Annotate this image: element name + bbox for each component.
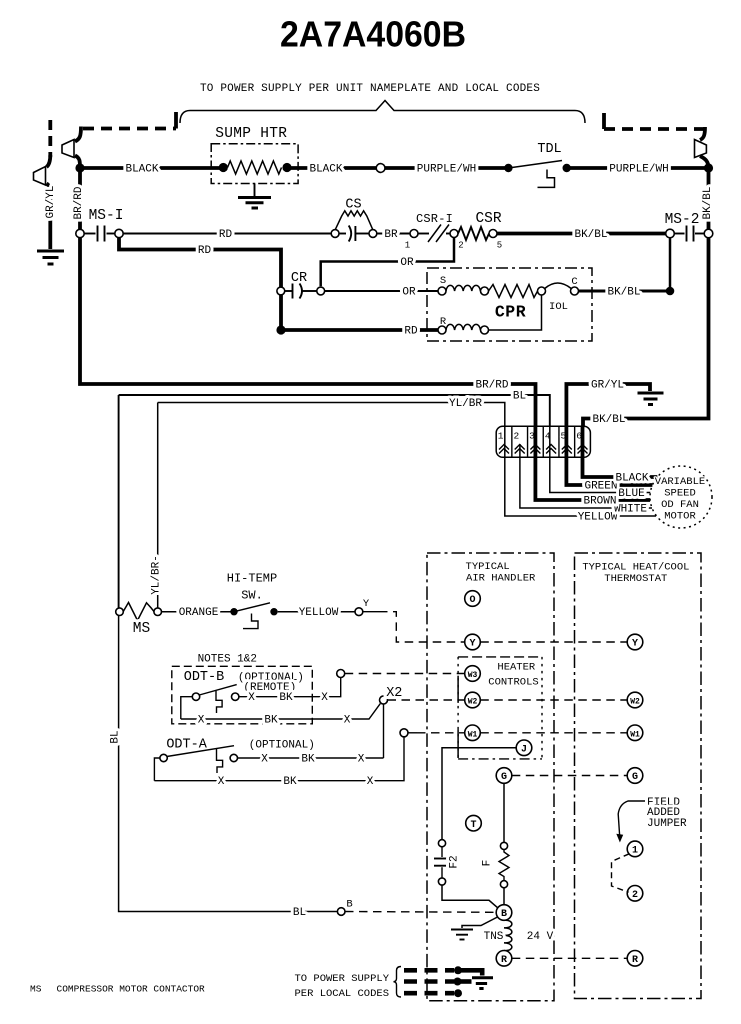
node: CPR start winding inner — [481, 287, 489, 295]
wire: F to B terminal — [503, 888, 505, 905]
svg-text:CPR: CPR — [495, 303, 526, 322]
svg-text:G: G — [632, 772, 638, 783]
capacitor CR: leads — [285, 290, 317, 292]
fuse F2: plates — [434, 859, 450, 866]
junction: RD node at CR branch — [276, 325, 285, 334]
connector: left quick-connect terminal — [62, 140, 74, 158]
svg-text:BK/BL: BK/BL — [592, 414, 625, 426]
connector: right quick-connect terminal — [695, 140, 707, 158]
fuse F2: top node — [438, 840, 445, 847]
wire: Y dashed route to air handler — [379, 612, 465, 642]
wire: OR run CR to CPR S — [325, 290, 438, 292]
wire: X2 vertical to ODT-A upper — [383, 704, 385, 758]
svg-text:GR/YL: GR/YL — [591, 380, 624, 392]
wire: BR/RD vertical from L1 to MS-1 — [78, 168, 82, 230]
terminal air handler Y — [465, 634, 481, 650]
wire: Y row air handler to thermostat — [480, 641, 627, 643]
svg-text:PURPLE/WH: PURPLE/WH — [417, 164, 476, 176]
wire: W1 row air handler to thermostat — [480, 732, 627, 734]
svg-text:YL/BR: YL/BR — [449, 398, 482, 410]
capacitor CS: leads — [339, 233, 369, 235]
wire: heater jumper W3-W2 — [457, 676, 459, 703]
node: W3 splice — [337, 670, 345, 678]
svg-text:S: S — [440, 275, 446, 287]
terminal strip chevron connectors — [499, 445, 588, 454]
wire: ODT-A lower branch X BK X — [154, 737, 404, 781]
svg-text:BK: BK — [279, 692, 293, 704]
svg-text:Y: Y — [632, 639, 638, 650]
junction: power line 2 — [454, 978, 462, 986]
wire: main line BLACK to open node — [287, 166, 381, 170]
contactor MS-1: contact bars — [84, 226, 115, 242]
svg-text:WHITE: WHITE — [614, 504, 647, 516]
wire: bend into ground connector — [47, 155, 51, 167]
terminal dot: HI-TEMP right — [270, 608, 277, 615]
resistor F: element — [499, 850, 509, 881]
wire: BK/BL run CSR to MS-2 — [497, 232, 666, 236]
wire: G row air handler to thermostat — [512, 775, 627, 777]
node: X2 splice — [380, 696, 388, 704]
wire: power line 1 (dashed) — [404, 968, 454, 973]
resistor CSR — [458, 227, 489, 240]
terminal transformer B — [496, 905, 512, 921]
leader line to jumper — [618, 801, 645, 835]
ground symbol: sump heater — [238, 198, 271, 209]
wire: left supply dashed drop from brace — [174, 112, 178, 129]
svg-text:T: T — [470, 820, 476, 831]
wire: main line PURPLE/WH to TDL — [385, 166, 508, 170]
svg-text:OD FAN: OD FAN — [661, 499, 699, 511]
wire: RD thick branch below MS-1 — [119, 238, 281, 327]
wire: power line 1 to ground — [458, 970, 482, 975]
capacitor CS: straight plate — [354, 226, 356, 241]
wire: G down to fuse F — [503, 783, 505, 842]
svg-text:CSR: CSR — [475, 211, 501, 227]
wire: WHITE motor lead (terminal 2) — [520, 444, 652, 508]
node: MS-1 left terminal — [76, 229, 84, 237]
wire: left supply dashed horizontal — [83, 127, 176, 131]
wire: power line 2 stub — [458, 979, 472, 984]
svg-text:GREEN: GREEN — [584, 481, 617, 493]
contactor MS-2: contact bars — [687, 226, 694, 242]
svg-text:Y: Y — [469, 639, 475, 650]
svg-text:TO POWER SUPPLY: TO POWER SUPPLY — [294, 973, 389, 985]
svg-text:X: X — [321, 692, 328, 704]
wire: X2 dashed route to W2 — [388, 699, 465, 701]
terminal dot: TDL right — [563, 164, 571, 172]
svg-text:J: J — [521, 744, 527, 755]
node: MS coil right — [154, 608, 162, 616]
svg-text:5: 5 — [497, 241, 502, 251]
wire: bend into right connector — [700, 127, 705, 140]
wire: BROWN motor lead (terminal 3) — [535, 427, 650, 500]
svg-text:MS-I: MS-I — [89, 208, 124, 224]
wire: W2 row air handler to thermostat — [480, 699, 627, 701]
svg-text:OR: OR — [402, 287, 416, 299]
svg-text:W1: W1 — [468, 730, 478, 739]
node: CSR-1 pin 2 — [450, 230, 458, 238]
wire: bend from left connector to junction — [75, 156, 80, 169]
terminal thermostat W2 — [627, 692, 643, 708]
svg-text:YELLOW: YELLOW — [299, 607, 339, 619]
terminal thermostat Y — [627, 634, 643, 650]
switch ODT-A: thermal actuator — [217, 749, 223, 773]
switch HI-TEMP: thermal actuator — [243, 614, 258, 629]
node: W1 splice — [400, 729, 408, 737]
svg-text:MOTOR: MOTOR — [664, 511, 696, 523]
box: typical air handler (dash-dot) — [427, 553, 554, 1001]
node: ODT-A right — [230, 754, 237, 761]
svg-text:BK: BK — [301, 754, 315, 766]
svg-text:X: X — [261, 754, 268, 766]
svg-text:PER LOCAL CODES: PER LOCAL CODES — [294, 988, 389, 1000]
node: CPR common node — [538, 287, 546, 295]
wire: BR segment CS to CSR-1 — [377, 233, 410, 235]
wire: power line 2 (dashed) — [404, 979, 454, 984]
svg-text:ORANGE: ORANGE — [179, 607, 219, 619]
svg-text:BLACK: BLACK — [309, 164, 342, 176]
svg-text:W2: W2 — [468, 698, 478, 707]
wire: W3 dashed route — [345, 673, 465, 675]
svg-text:SW.: SW. — [241, 589, 263, 603]
svg-text:BR: BR — [384, 229, 398, 241]
terminal air handler G — [496, 768, 512, 784]
svg-text:THERMOSTAT: THERMOSTAT — [604, 573, 667, 585]
wire: bend below ground connector — [47, 184, 51, 195]
svg-text:B: B — [501, 909, 507, 920]
node: CS right — [369, 230, 377, 238]
resistor: CPR internal — [489, 285, 538, 298]
ground symbol: transformer B — [451, 930, 473, 940]
node: ODT-B left — [192, 693, 199, 700]
connector: GR/YL quick-connect terminal — [34, 167, 46, 186]
fuse F2: bottom node — [438, 878, 445, 885]
wire: W1 stub — [408, 732, 417, 734]
svg-text:1: 1 — [405, 241, 410, 251]
wire: MS-2 left lead — [674, 233, 685, 235]
node: CSR pin 5 — [489, 230, 497, 238]
svg-text:Y: Y — [363, 598, 370, 610]
wire: BLUE motor lead (terminal 4) — [550, 427, 651, 493]
wire: GREEN motor lead (terminal 5) — [566, 427, 652, 485]
wire: J to F2 fuse — [442, 748, 516, 840]
svg-text:ODT-B: ODT-B — [184, 670, 225, 685]
node: ODT-B right — [232, 693, 239, 700]
svg-text:O: O — [469, 595, 475, 606]
svg-text:BR/RD: BR/RD — [73, 186, 85, 219]
wire: ODT-A upper branch X BK X — [238, 757, 384, 759]
junction: power line 1 — [454, 966, 462, 974]
switch HI-TEMP: lever — [234, 603, 270, 612]
svg-text:HI-TEMP: HI-TEMP — [227, 572, 277, 586]
wire: right vertical BK/BL down to fan circuit — [583, 168, 709, 427]
wire: F2 to B terminal — [442, 885, 498, 908]
svg-text:CONTROLS: CONTROLS — [488, 677, 538, 689]
node: CPR run winding inner — [481, 326, 489, 334]
switch TDL: lever — [508, 161, 562, 169]
terminal transformer R — [496, 951, 512, 967]
wire: YELLOW motor lead (terminal 1) — [505, 427, 656, 516]
svg-text:TNS: TNS — [484, 931, 504, 943]
wire: YL/BR run to terminal 1 — [158, 403, 505, 428]
node: CR left — [277, 287, 285, 295]
svg-text:YL/BR-: YL/BR- — [151, 555, 163, 595]
svg-text:CS: CS — [345, 198, 361, 213]
svg-text:MS: MS — [133, 621, 150, 637]
wire: ODT-B left drop — [181, 697, 193, 719]
svg-text:X: X — [198, 715, 205, 727]
coil MS: zigzag element — [123, 603, 154, 621]
wire: bend into left connector — [75, 127, 81, 142]
terminal thermostat 2 — [627, 886, 643, 902]
wire: right supply dashed drop from brace — [602, 113, 606, 129]
svg-text:W3: W3 — [468, 671, 478, 680]
svg-text:BK/BL: BK/BL — [574, 229, 607, 241]
svg-text:VARIABLE: VARIABLE — [655, 476, 705, 488]
wire: main line L1 BLACK segment — [80, 166, 223, 170]
brace: power supply — [394, 967, 402, 998]
capacitor CS: curved plate — [349, 226, 352, 242]
node: B splice — [337, 908, 345, 916]
switch ODT-B: lever — [199, 685, 236, 695]
wire: YL/BR vertical (MS coil to top run) — [157, 403, 159, 609]
transformer TNS: secondary coil — [504, 920, 512, 950]
svg-text:TYPICAL HEAT/COOL: TYPICAL HEAT/COOL — [582, 562, 689, 574]
svg-text:HEATER: HEATER — [497, 662, 536, 674]
wire: sump heater ground stem — [254, 184, 256, 197]
wire: right supply dashed horizontal — [604, 127, 705, 131]
junction: power line 3 — [454, 989, 462, 997]
node: MS-2 right terminal — [704, 229, 713, 238]
svg-text:F: F — [482, 860, 494, 867]
svg-text:COMPRESSOR MOTOR CONTACTOR: COMPRESSOR MOTOR CONTACTOR — [57, 984, 206, 995]
svg-text:(OPTIONAL): (OPTIONAL) — [249, 740, 315, 752]
wire: GR/YL dashed vertical — [48, 120, 52, 157]
svg-text:F2: F2 — [449, 855, 461, 868]
svg-text:W2: W2 — [630, 698, 640, 707]
resistor F: top node — [500, 842, 507, 849]
wire: CPR internal run to common — [489, 295, 542, 330]
svg-text:JUMPER: JUMPER — [647, 818, 687, 830]
svg-text:YELLOW: YELLOW — [578, 512, 618, 524]
terminal air handler J — [516, 740, 532, 756]
terminal dot: TDL left — [504, 164, 512, 172]
svg-text:BLUE: BLUE — [618, 488, 645, 500]
terminal air handler W2 — [465, 692, 481, 708]
svg-text:BR/RD: BR/RD — [475, 380, 508, 392]
capacitor CR: straight plate — [292, 284, 294, 299]
terminal thermostat 1 — [627, 841, 643, 857]
wire: RD thin run MS-1 to CS — [123, 233, 331, 235]
winding: CPR run winding — [446, 324, 480, 330]
wire: W1 dashed route — [417, 732, 465, 734]
wire: RD run to CPR R — [281, 328, 438, 332]
svg-text:BROWN: BROWN — [583, 496, 616, 508]
IOL overload arc — [545, 283, 572, 289]
svg-text:1: 1 — [498, 431, 504, 442]
terminal air handler W3 — [465, 666, 481, 682]
svg-text:OR: OR — [400, 257, 414, 269]
node: Y splice — [355, 608, 363, 616]
ground symbol: left earth ground — [37, 251, 64, 264]
wire: MS-2 right lead — [695, 233, 705, 235]
svg-text:NOTES 1&2: NOTES 1&2 — [198, 654, 257, 666]
node: MS-2 left terminal — [666, 229, 675, 238]
node: CR right — [317, 287, 325, 295]
motor: variable speed OD fan (dotted circle) — [650, 466, 712, 528]
svg-text:2: 2 — [458, 241, 463, 251]
node: CS left — [331, 230, 339, 238]
svg-text:2: 2 — [632, 890, 638, 901]
junction: BK/BL node — [666, 287, 675, 296]
wire: OR branch from CSR-1 pin2 — [321, 238, 454, 287]
switch ODT-B: thermal actuator — [216, 691, 222, 713]
svg-text:TDL: TDL — [537, 142, 561, 157]
node: open splice on main line — [376, 164, 385, 173]
wire: B dashed route to transformer — [345, 911, 497, 914]
svg-text:24 V: 24 V — [527, 931, 554, 943]
wire: GR/YL run terminal 5 to ground — [566, 384, 650, 427]
wire: ORANGE run — [162, 611, 231, 613]
svg-text:B: B — [346, 899, 352, 911]
svg-text:1: 1 — [632, 846, 638, 857]
box: typical heat/cool thermostat (dash-dot) — [575, 553, 702, 999]
wire: ODT-B upper branch X BK X — [239, 678, 341, 697]
node: MS-1 right terminal — [115, 229, 123, 237]
wire: bend from right connector to junction — [700, 156, 709, 168]
svg-text:2A7A4060B: 2A7A4060B — [280, 14, 466, 55]
switch TDL: thermal actuator — [538, 170, 555, 188]
terminal air handler O — [465, 591, 481, 607]
relay contact CSR-1: slash marks — [428, 225, 449, 243]
wire: heater jumper W1 down — [457, 729, 459, 758]
terminal dot: sump heater left — [219, 163, 228, 172]
compressor CPR dashed box — [427, 268, 592, 341]
winding: CPR start winding — [446, 285, 480, 291]
wire: BL run to terminal 4 — [119, 395, 550, 427]
junction: L1 right node — [704, 163, 713, 172]
terminal dot: sump heater right — [282, 163, 291, 172]
svg-text:RD: RD — [198, 245, 212, 257]
svg-text:BLACK: BLACK — [125, 164, 158, 176]
svg-text:BL: BL — [293, 907, 306, 919]
terminal air handler W1 — [465, 725, 481, 741]
terminal dot: HI-TEMP left — [230, 608, 237, 615]
node: CPR S terminal — [438, 287, 446, 295]
svg-text:BLACK: BLACK — [615, 473, 648, 485]
leader arrowhead — [616, 834, 623, 843]
resistor: sump heater element — [228, 161, 282, 174]
sump heater dashed box — [211, 144, 298, 184]
svg-text:X: X — [218, 776, 225, 788]
brace over power supply wires — [180, 101, 585, 124]
box: heater controls — [458, 657, 542, 759]
svg-text:RD: RD — [219, 229, 233, 241]
svg-text:SUMP HTR: SUMP HTR — [215, 126, 287, 142]
node: MS coil left — [116, 608, 124, 616]
svg-text:BK: BK — [283, 776, 297, 788]
svg-text:BL: BL — [513, 391, 526, 403]
terminal strip numbers 1-6 — [498, 431, 582, 442]
switch ODT-A: lever — [167, 746, 234, 757]
svg-text:TYPICAL: TYPICAL — [466, 561, 510, 573]
wire: CPR C out BK/BL — [579, 290, 667, 293]
wire: MS-2 vertical down to CPR common — [669, 238, 672, 291]
terminal thermostat R — [627, 951, 643, 967]
terminal air handler T — [466, 815, 482, 831]
wire: main line PURPLE/WH right segment — [567, 166, 709, 170]
capacitor CR: curved plate — [300, 284, 303, 299]
node: CSR-1 pin 1 — [410, 230, 418, 238]
svg-text:PURPLE/WH: PURPLE/WH — [609, 164, 668, 176]
capacitor CS: overload loop — [335, 211, 373, 230]
terminal strip cell dividers — [512, 426, 575, 457]
wire: BL vertical (MS coil to top run) — [118, 395, 120, 608]
notes dashed box — [172, 666, 312, 724]
svg-text:CSR-I: CSR-I — [416, 212, 453, 226]
node: CPR R terminal — [438, 326, 446, 334]
junction: L1 left node — [75, 163, 84, 172]
wire: ODT-A left drop — [154, 758, 160, 781]
fuse F2: leads — [441, 847, 443, 878]
svg-text:TO POWER SUPPLY PER UNIT NAMEP: TO POWER SUPPLY PER UNIT NAMEPLATE AND L… — [200, 83, 540, 95]
svg-text:BK/BL: BK/BL — [607, 287, 640, 299]
wire: YELLOW run — [278, 611, 355, 613]
svg-text:BK/BL: BK/BL — [702, 186, 714, 219]
svg-text:AIR HANDLER: AIR HANDLER — [466, 573, 536, 585]
wire: GR/YL to ground — [48, 194, 52, 249]
svg-text:X: X — [367, 776, 374, 788]
terminal thermostat G — [627, 768, 643, 784]
relay contact CSR-1: leads — [418, 233, 450, 235]
svg-text:R: R — [632, 955, 638, 966]
svg-text:RD: RD — [404, 326, 418, 338]
svg-text:IOL: IOL — [549, 301, 568, 313]
wire: BLACK motor lead (terminal 6) — [583, 427, 658, 477]
node: CPR C terminal — [571, 287, 579, 295]
svg-text:G: G — [501, 772, 507, 783]
wire: B terminal ground branch — [462, 917, 498, 928]
wire: BL vertical (MS coil down to B splice) — [119, 616, 338, 912]
svg-text:BL: BL — [110, 730, 122, 743]
svg-text:R: R — [501, 955, 507, 966]
svg-text:SPEED: SPEED — [664, 488, 696, 500]
wire: field added jumper (dashed) — [612, 854, 630, 892]
svg-text:X: X — [248, 692, 255, 704]
node: ODT-A left — [160, 754, 167, 761]
wire: power line 3 (dashed) — [404, 991, 454, 996]
terminal strip outline — [496, 426, 590, 457]
resistor F: bottom node — [500, 881, 507, 888]
svg-text:X2: X2 — [386, 686, 402, 701]
wire: R row TNS to thermostat — [512, 957, 627, 959]
wire: ODT-B lower branch X BK X — [181, 704, 380, 719]
wire: MS-1 lower vertical to BR/RD run — [80, 238, 536, 427]
svg-text:BK: BK — [264, 715, 278, 727]
ground symbol: power supply — [472, 978, 493, 989]
svg-text:W1: W1 — [630, 730, 640, 739]
svg-text:GR/YL: GR/YL — [45, 185, 57, 218]
svg-text:2: 2 — [513, 431, 519, 442]
svg-text:X: X — [358, 754, 365, 766]
svg-text:X: X — [344, 715, 351, 727]
svg-text:MS: MS — [30, 984, 42, 995]
ground symbol: fan circuit — [638, 393, 664, 405]
terminal thermostat W1 — [627, 725, 643, 741]
wire: Y solid stub — [363, 611, 379, 613]
